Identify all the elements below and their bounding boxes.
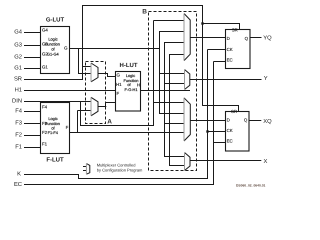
wire F3 bbox=[24, 123, 40, 125]
flip-flop FF2 box bbox=[226, 112, 250, 152]
svg-text:F-G-H1: F-G-H1 bbox=[125, 87, 138, 92]
svg-text:G2: G2 bbox=[14, 54, 22, 61]
svg-text:XQ: XQ bbox=[263, 118, 272, 125]
svg-text:G1: G1 bbox=[14, 65, 22, 72]
svg-text:DS060_02_0640.01: DS060_02_0640.01 bbox=[236, 184, 265, 188]
svg-text:X: X bbox=[264, 159, 268, 165]
svg-text:F1: F1 bbox=[42, 142, 48, 147]
G-LUT box bbox=[41, 27, 70, 74]
svg-text:A: A bbox=[107, 119, 112, 126]
wire mux2 input 1 (G') bbox=[159, 73, 185, 75]
wire G3 bbox=[24, 45, 40, 47]
svg-text:F1: F1 bbox=[15, 145, 22, 151]
wire H' output into box B bbox=[141, 90, 190, 92]
svg-text:F: F bbox=[117, 91, 120, 96]
flip-flop FF1 box bbox=[226, 30, 251, 69]
svg-text:G1-G4: G1-G4 bbox=[47, 51, 60, 56]
wire XQ output bbox=[249, 120, 261, 122]
svg-text:F-LUT: F-LUT bbox=[46, 157, 64, 164]
svg-text:B: B bbox=[142, 8, 147, 15]
svg-text:G3: G3 bbox=[14, 42, 22, 49]
wire mux A1 output to H-LUT G pin bbox=[98, 74, 116, 78]
wire G2 bbox=[24, 57, 40, 59]
wire mux1 input 4 (F') bbox=[169, 54, 184, 56]
svg-text:F3: F3 bbox=[15, 120, 22, 127]
svg-text:EC: EC bbox=[227, 138, 233, 143]
svg-text:F: F bbox=[66, 125, 69, 130]
svg-text:CK: CK bbox=[227, 47, 233, 52]
wire mux3 input 2 (G') bbox=[159, 113, 184, 115]
svg-text:G1: G1 bbox=[42, 65, 48, 70]
mux A1 bbox=[91, 63, 98, 82]
wire YQ output bbox=[250, 37, 262, 39]
dashed box A bbox=[86, 62, 106, 124]
wire G4 bbox=[24, 32, 40, 34]
junction K/FF2 CK bbox=[206, 130, 208, 132]
svg-text:F1-F4: F1-F4 bbox=[48, 130, 59, 135]
svg-text:by Configuration Program: by Configuration Program bbox=[97, 168, 143, 173]
wire mux2 input 2 (H') bbox=[164, 83, 185, 85]
svg-text:D: D bbox=[227, 36, 230, 41]
wire SR branch to FF2 SR pin bbox=[203, 106, 240, 112]
wire mux4 output to X bbox=[190, 160, 261, 162]
svg-text:H-LUT: H-LUT bbox=[120, 62, 138, 69]
legend clock mux symbol bbox=[86, 164, 89, 175]
mux4 X output select bbox=[185, 153, 191, 171]
svg-text:F4: F4 bbox=[15, 109, 23, 115]
mux2 Y output select bbox=[185, 70, 190, 90]
wire mux3 input 3 (H') bbox=[164, 123, 184, 125]
dashed box B bbox=[149, 12, 197, 171]
wire mux3 output to FF2 D bbox=[190, 120, 225, 122]
wire K branch to FF2 CK pin bbox=[208, 131, 226, 133]
svg-text:F2: F2 bbox=[15, 132, 22, 139]
svg-text:F4: F4 bbox=[42, 105, 48, 110]
wire mux3 input 1 (DIN) bbox=[154, 102, 185, 104]
wire DIN underpass branch to box B riser bbox=[81, 102, 155, 127]
wire mux1 input 3 (H') bbox=[164, 42, 184, 44]
wire mux2 output to Y bbox=[190, 79, 262, 81]
wire mux1 input 2 (G') bbox=[159, 31, 184, 33]
wire H1 to H-LUT bbox=[24, 90, 115, 92]
svg-text:Q: Q bbox=[244, 118, 248, 123]
wire mux1 input 1 (DIN) bbox=[154, 20, 185, 22]
svg-text:CK: CK bbox=[227, 128, 233, 133]
riser G' in box B bbox=[159, 32, 161, 114]
svg-text:K: K bbox=[17, 172, 21, 178]
junction SR/FF1 bbox=[201, 22, 203, 24]
riser H' in box B bbox=[164, 43, 166, 157]
wire SR branch into mux A1 input 1 bbox=[83, 66, 92, 68]
mux3 XQ data select bbox=[184, 98, 190, 141]
wire G1 bbox=[24, 68, 40, 70]
svg-text:YQ: YQ bbox=[263, 35, 272, 42]
wire F4 bbox=[24, 111, 40, 113]
H-LUT box bbox=[116, 72, 141, 112]
svg-text:G4: G4 bbox=[14, 29, 23, 36]
mux A2 bbox=[91, 97, 98, 116]
svg-text:G4: G4 bbox=[42, 27, 48, 32]
wire mux A2 output to H-LUT F pin bbox=[98, 103, 116, 107]
svg-text:G: G bbox=[64, 46, 68, 51]
F-LUT box bbox=[41, 103, 70, 154]
riser F' in box B bbox=[169, 55, 171, 166]
legend clock mux symbol input stubs bbox=[83, 167, 86, 171]
mux1 YQ data select bbox=[184, 14, 190, 61]
wire mux1 output to FF1 D bbox=[190, 37, 225, 39]
svg-text:EC: EC bbox=[227, 58, 233, 63]
svg-text:Y: Y bbox=[264, 76, 268, 82]
wire DIN to mux A2 input 1 bbox=[24, 101, 91, 103]
wire SR branch to FF1 SR pin bbox=[203, 24, 241, 30]
wire G' branch down to mux A1 input 2 bbox=[79, 49, 92, 75]
wire SR: left run, up-and-over top, down right side bbox=[24, 5, 203, 106]
wire G' output to box B bbox=[70, 48, 160, 50]
svg-text:H: H bbox=[137, 82, 140, 87]
svg-text:H1: H1 bbox=[116, 82, 122, 87]
wire F2 bbox=[24, 135, 40, 137]
wire F' output to box B mux3 bbox=[70, 132, 185, 134]
svg-text:EC: EC bbox=[14, 181, 22, 188]
wire F' branch up to mux A2 input 2 bbox=[78, 111, 92, 134]
svg-text:SR: SR bbox=[232, 28, 238, 33]
svg-text:SR: SR bbox=[231, 109, 237, 114]
svg-text:SR: SR bbox=[14, 76, 22, 83]
riser DIN in box B bbox=[153, 21, 155, 127]
svg-text:H1: H1 bbox=[15, 88, 22, 94]
wire EC bottom run and riser to FF1 EC bbox=[24, 62, 225, 185]
svg-text:G: G bbox=[117, 73, 121, 78]
wire mux4 input 1 (H') bbox=[164, 156, 185, 158]
svg-text:G-LUT: G-LUT bbox=[46, 16, 65, 23]
wire mux4 input 2 (F') bbox=[169, 165, 185, 167]
wire EC branch to FF2 EC pin bbox=[214, 142, 226, 144]
wire K to clock mux legend symbol bbox=[24, 50, 225, 180]
svg-text:D: D bbox=[227, 118, 230, 123]
svg-text:DIN: DIN bbox=[12, 99, 22, 105]
wire F1 bbox=[24, 147, 40, 149]
svg-text:Q: Q bbox=[245, 36, 249, 41]
